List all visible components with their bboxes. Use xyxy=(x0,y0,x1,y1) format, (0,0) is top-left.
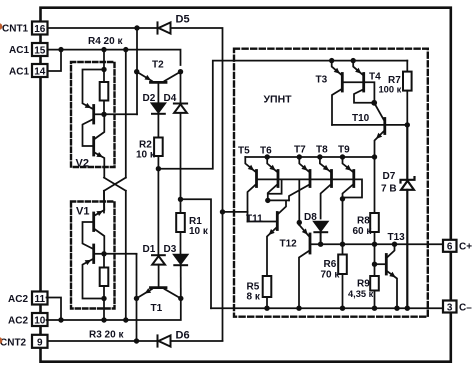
diode D2 xyxy=(152,103,165,113)
node AC2-R3 xyxy=(101,317,106,322)
svg-text:6: 6 xyxy=(447,242,453,253)
node rail T9 xyxy=(340,154,345,159)
svg-text:C–: C– xyxy=(459,302,472,313)
V2 lower emitter xyxy=(95,153,105,178)
svg-text:D6: D6 xyxy=(176,330,190,342)
svg-text:11: 11 xyxy=(35,294,46,305)
resistor R1 xyxy=(176,213,185,232)
wire T11 collector riser xyxy=(279,200,287,213)
node CNT1-T1col junction xyxy=(134,25,139,30)
transistor T10 xyxy=(374,103,385,157)
V2 lower collector xyxy=(95,114,105,139)
diode D8 xyxy=(314,222,327,244)
svg-text:D7: D7 xyxy=(383,171,396,182)
node R7 bottom xyxy=(405,122,410,127)
resistor R6 xyxy=(342,244,344,255)
svg-text:9: 9 xyxy=(37,338,43,349)
wire cross column AC1 down xyxy=(125,50,127,178)
transistor T12 xyxy=(299,225,310,308)
wire R3 bottom to AC2 xyxy=(103,286,105,320)
wire AC1 to R4 top xyxy=(103,50,105,82)
pin 14 box xyxy=(32,64,48,78)
svg-text:10 к: 10 к xyxy=(136,150,156,161)
pin 9 box xyxy=(32,335,48,349)
node AC2-V2emitter xyxy=(123,317,128,322)
V1 upper base from lower bar xyxy=(83,222,94,249)
transistor T5 xyxy=(245,157,256,222)
transistor T1 xyxy=(137,288,181,299)
wire D4 to R1 node xyxy=(180,113,182,213)
svg-text:T10: T10 xyxy=(352,113,370,124)
svg-text:R8: R8 xyxy=(357,216,370,227)
wire CNT1 pin16 to corner xyxy=(48,28,223,341)
svg-text:7 В: 7 В xyxy=(381,184,397,195)
wire T2 collector to D4 xyxy=(180,72,182,103)
wire C+ rail to pin6 xyxy=(311,243,443,245)
svg-text:C+: C+ xyxy=(459,242,472,253)
V1 upper collector xyxy=(95,229,105,254)
V1 lower emitter arrow xyxy=(85,260,92,265)
diode D5 xyxy=(158,22,171,33)
svg-text:D4: D4 xyxy=(164,93,177,104)
svg-text:УПНТ: УПНТ xyxy=(264,94,293,106)
wire R1 node to C- rail xyxy=(181,199,212,308)
svg-text:D8: D8 xyxy=(304,212,317,223)
wire T2 base to D2 xyxy=(157,82,159,103)
svg-text:100 к: 100 к xyxy=(379,85,402,95)
svg-text:T6: T6 xyxy=(260,146,272,157)
V1 upper emitter xyxy=(95,191,105,216)
wire T6-T7 collector tie xyxy=(268,199,289,201)
transistor V1 upper (bar) xyxy=(92,213,95,231)
wire AC2 pin10 to T1 collector corner xyxy=(47,298,181,320)
node AC1-R4 xyxy=(101,47,106,52)
svg-text:R3 20 к: R3 20 к xyxy=(89,330,124,341)
node rail T8 xyxy=(317,154,322,159)
pin 3 box xyxy=(443,301,457,314)
dashed box V1 xyxy=(71,202,115,309)
svg-text:T1: T1 xyxy=(151,303,163,314)
svg-text:3: 3 xyxy=(447,302,453,313)
node T12 collector bottom xyxy=(296,306,301,311)
wire T12 emitter column xyxy=(298,179,300,225)
svg-text:V2: V2 xyxy=(76,158,89,170)
svg-text:AC2: AC2 xyxy=(8,294,28,305)
V2 upper base lead xyxy=(95,113,104,115)
svg-text:R6: R6 xyxy=(324,259,337,270)
wire D2 to R2 xyxy=(157,114,159,138)
svg-text:T13: T13 xyxy=(388,232,406,243)
node R2 bottom xyxy=(156,166,161,171)
node R5 bottom xyxy=(264,306,269,311)
node T4 collector-base xyxy=(371,100,377,106)
transistor T13 xyxy=(375,244,398,308)
svg-text:15: 15 xyxy=(34,46,46,57)
svg-text:T12: T12 xyxy=(280,239,298,250)
node R1 top / D4 xyxy=(178,197,183,202)
wire V1 base out to T1 emitter column xyxy=(104,253,137,255)
node top rail T3 xyxy=(329,58,334,63)
wire base rail T5-T9 xyxy=(257,179,363,197)
resistor R4 (in V2) xyxy=(100,82,109,101)
svg-text:T8: T8 xyxy=(316,145,328,156)
svg-text:AC1: AC1 xyxy=(9,45,29,56)
pin 16 box xyxy=(32,22,48,36)
resistor R2 xyxy=(154,138,163,157)
zener D7 xyxy=(401,125,415,308)
node AC1-pin14 xyxy=(58,47,63,52)
svg-text:CNT1: CNT1 xyxy=(2,24,29,35)
node R9 bottom xyxy=(372,306,377,311)
pin 6 box xyxy=(443,240,457,253)
node rail T6 xyxy=(265,154,270,159)
dashed box UPNT xyxy=(234,49,428,317)
svg-text:AC2: AC2 xyxy=(8,316,28,327)
svg-text:D5: D5 xyxy=(176,14,190,26)
svg-text:T7: T7 xyxy=(294,145,306,156)
node T1 collector xyxy=(178,296,183,301)
node D7 bottom xyxy=(405,306,410,311)
wire R3 top xyxy=(103,254,105,268)
wire pin11 riser xyxy=(47,298,62,321)
transistor V2 lower (bar) xyxy=(92,138,95,156)
pin 10 box xyxy=(32,313,48,327)
transistor V2 upper (bar) xyxy=(92,106,95,124)
diode D1 xyxy=(152,255,165,264)
node T1 emitter xyxy=(134,296,139,301)
wire V1 emitter entry xyxy=(103,191,105,213)
transistor V1 lower (bar) xyxy=(92,245,95,263)
wire D1 to T1 base xyxy=(158,265,160,288)
node top rail T4 xyxy=(351,58,356,63)
wire R2 bottom to D1, node xyxy=(157,156,159,255)
svg-text:R9: R9 xyxy=(357,279,370,290)
wire AC1 pin15 to T2 collector corner xyxy=(48,50,181,65)
wire V2 emitter down to AC2 xyxy=(125,191,127,320)
node V1 base-out xyxy=(101,251,106,256)
wire X crossing xyxy=(104,178,126,191)
node V2 base-out xyxy=(101,112,106,117)
wire T1 emitter column (V1 base to CNT2) xyxy=(136,254,138,341)
wire pin14 riser xyxy=(48,50,62,71)
svg-text:T5: T5 xyxy=(238,146,250,157)
svg-text:CNT2: CNT2 xyxy=(0,337,27,348)
svg-text:R4 20 к: R4 20 к xyxy=(88,36,123,47)
svg-text:10: 10 xyxy=(34,316,46,327)
V2 upper collector to lower base xyxy=(83,119,94,146)
wire T10 base line (T3 collector to R7 bottom) xyxy=(332,124,407,126)
node R6 top xyxy=(340,242,345,247)
resistor R7 xyxy=(406,61,408,72)
wire R4 bottom to base node xyxy=(103,101,105,115)
wire V2 base out to T2 emitter column xyxy=(104,113,137,115)
svg-text:60 к: 60 к xyxy=(353,226,373,237)
node rail T10 emitter xyxy=(372,154,377,159)
node rail T7 xyxy=(297,154,302,159)
svg-text:T2: T2 xyxy=(152,60,164,71)
diode D4 xyxy=(174,104,187,113)
svg-text:4,35 к: 4,35 к xyxy=(348,289,374,299)
node D8 bottom xyxy=(318,242,323,247)
node V1 emitter-resistor xyxy=(101,296,106,301)
node R8 bottom C+ rail xyxy=(372,242,377,247)
node T2 emitter xyxy=(134,69,139,74)
pin 15 box xyxy=(32,43,48,57)
svg-text:T9: T9 xyxy=(338,145,350,156)
resistor R8 xyxy=(374,157,376,213)
resistor R3 (in V1) xyxy=(100,268,109,287)
dashed box V2 xyxy=(71,62,115,167)
V1 lower base lead xyxy=(95,253,104,255)
node R6 bottom xyxy=(340,306,345,311)
svg-text:D2: D2 xyxy=(143,93,156,104)
node V2 emitter-resistor xyxy=(101,67,106,72)
svg-text:D1: D1 xyxy=(143,244,156,255)
svg-text:T11: T11 xyxy=(246,214,263,225)
V2 upper emitter arrow xyxy=(85,103,92,108)
diode D6 xyxy=(158,335,171,346)
node CNT-tie to T11 xyxy=(220,209,225,214)
node AC2-pin11 xyxy=(58,317,63,322)
wire R2 node to UPNT input rail xyxy=(158,61,407,169)
svg-text:D3: D3 xyxy=(164,244,177,255)
wire emitter rail T5-T9 xyxy=(245,156,374,158)
node AC1-cross xyxy=(123,47,128,52)
svg-text:16: 16 xyxy=(34,24,46,35)
svg-text:70 к: 70 к xyxy=(321,270,341,281)
wire C- from R1 corner to pin3 xyxy=(211,307,443,309)
wire CNT-tie to T11 base entry xyxy=(223,211,248,213)
V2 upper emitter xyxy=(83,70,105,109)
bullet CNT2 xyxy=(0,337,2,344)
node T2 collector xyxy=(178,69,183,74)
transistor T7 xyxy=(289,157,310,200)
wire T3-T4 base tie to collector xyxy=(342,82,374,103)
node T13 collector xyxy=(392,242,397,247)
diode D3 xyxy=(174,255,187,265)
resistor R9 xyxy=(370,276,379,291)
V2 lower emitter arrow xyxy=(96,152,103,157)
V1 upper emitter arrow xyxy=(96,211,103,216)
node T13 emitter xyxy=(394,306,399,311)
wire D3 to T1 collector node xyxy=(180,265,182,298)
transistor T4 xyxy=(353,61,374,103)
svg-text:8 к: 8 к xyxy=(247,292,261,303)
node T9 collector corner xyxy=(340,196,345,201)
wire R1 bottom to D3 xyxy=(180,232,182,255)
transistor T8 xyxy=(320,157,332,219)
pin 11 box xyxy=(32,292,48,306)
node T13 base tap xyxy=(372,262,377,267)
transistor T3 xyxy=(332,61,343,125)
svg-text:T4: T4 xyxy=(369,72,381,83)
svg-text:14: 14 xyxy=(34,67,46,78)
node CNT2-T1emitter column xyxy=(134,338,139,343)
V1 lower emitter xyxy=(83,259,105,298)
wire T2 emitter column (CNT1 to V2 base) xyxy=(136,28,138,114)
transistor T2 xyxy=(137,72,181,83)
node T6-T7 collector xyxy=(265,198,270,203)
svg-text:10 к: 10 к xyxy=(189,226,209,237)
wire CNT2 pin9 to corner xyxy=(48,340,223,342)
resistor R5 xyxy=(263,276,272,297)
svg-text:AC1: AC1 xyxy=(9,67,29,78)
svg-text:V1: V1 xyxy=(76,206,89,218)
wire T6 diode tie xyxy=(268,179,282,193)
svg-text:T3: T3 xyxy=(316,75,328,86)
transistor T11 xyxy=(248,213,278,277)
bullet CNT1 xyxy=(0,23,2,30)
node T12 emitter joint xyxy=(297,220,302,225)
transistor T6 xyxy=(267,157,278,200)
transistor T9 xyxy=(343,157,354,244)
